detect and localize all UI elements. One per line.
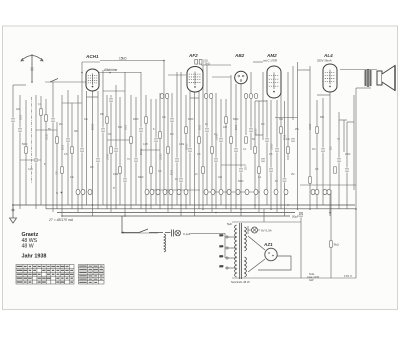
svg-text:15kΩ: 15kΩ — [119, 57, 127, 61]
svg-text:GW: GW — [309, 278, 314, 282]
svg-text:10000: 10000 — [108, 153, 110, 160]
svg-text:50000: 50000 — [93, 123, 95, 130]
svg-text:170 V: 170 V — [344, 274, 352, 278]
svg-text:7,5kΩ: 7,5kΩ — [203, 62, 210, 66]
svg-text:100: 100 — [223, 126, 228, 129]
svg-text:AB2: AB2 — [234, 53, 245, 58]
svg-text:S: S — [56, 191, 58, 195]
svg-text:500: 500 — [320, 116, 325, 119]
svg-text:10000: 10000 — [310, 123, 312, 130]
svg-text:5000: 5000 — [22, 143, 28, 146]
svg-text:5000: 5000 — [233, 118, 239, 121]
svg-text:300: 300 — [74, 130, 79, 133]
svg-text:100: 100 — [16, 108, 21, 111]
svg-text:10000: 10000 — [217, 133, 219, 140]
svg-text:1M: 1M — [312, 148, 315, 151]
svg-text:100k: 100k — [179, 143, 185, 146]
svg-text:1M: 1M — [108, 133, 111, 136]
svg-text:2M: 2M — [291, 173, 294, 176]
svg-text:ACH1: ACH1 — [85, 54, 99, 59]
svg-text:2000: 2000 — [133, 118, 139, 121]
svg-text:100k: 100k — [113, 173, 119, 176]
svg-text:5000: 5000 — [285, 134, 287, 140]
svg-text:48 W: 48 W — [22, 244, 34, 250]
svg-text:3000: 3000 — [126, 124, 128, 130]
svg-text:Jahr 1938: Jahr 1938 — [22, 254, 47, 260]
svg-text:3kΩ: 3kΩ — [334, 243, 340, 247]
svg-text:300: 300 — [279, 118, 284, 121]
svg-text:5000: 5000 — [21, 114, 23, 120]
svg-text:100: 100 — [218, 176, 223, 179]
svg-text:0,25: 0,25 — [143, 143, 148, 146]
svg-text:Netztrafo 48 W: Netztrafo 48 W — [231, 280, 250, 284]
svg-text:50µF: 50µF — [292, 215, 299, 219]
svg-text:5000: 5000 — [172, 169, 174, 175]
svg-text:mit C 170R: mit C 170R — [263, 59, 277, 63]
svg-text:2000: 2000 — [63, 144, 65, 150]
svg-text:0,25: 0,25 — [28, 168, 33, 171]
svg-text:4M: 4M — [90, 166, 93, 169]
svg-text:500: 500 — [118, 126, 123, 129]
svg-text:250V 36mA: 250V 36mA — [317, 59, 332, 63]
svg-text:50000: 50000 — [187, 143, 189, 150]
svg-text:2000: 2000 — [236, 124, 238, 130]
svg-text:AM2: AM2 — [266, 53, 277, 58]
svg-text:5000: 5000 — [238, 180, 244, 183]
svg-text:10000: 10000 — [47, 133, 49, 140]
svg-text:6000: 6000 — [138, 176, 144, 179]
svg-text:2000: 2000 — [345, 153, 351, 156]
svg-text:6000: 6000 — [188, 118, 194, 121]
svg-text:P: P — [113, 186, 115, 190]
svg-text:6000: 6000 — [200, 124, 202, 130]
svg-text:0,1µF: 0,1µF — [183, 232, 191, 236]
svg-text:20000: 20000 — [141, 148, 143, 155]
svg-text:30000: 30000 — [256, 128, 258, 135]
svg-text:6V 0,3A: 6V 0,3A — [261, 229, 272, 233]
svg-text:2M: 2M — [59, 123, 62, 126]
svg-text:27 = 48/170 mA: 27 = 48/170 mA — [48, 218, 74, 222]
svg-text:10000: 10000 — [272, 143, 274, 150]
svg-text:AF2: AF2 — [188, 53, 198, 58]
svg-text:5µF: 5µF — [227, 222, 232, 226]
svg-text:10000: 10000 — [161, 153, 163, 160]
svg-text:4M: 4M — [170, 133, 173, 136]
svg-text:2M: 2M — [261, 123, 264, 126]
svg-text:AL4: AL4 — [323, 53, 333, 58]
svg-text:AZ1: AZ1 — [263, 242, 273, 247]
svg-text:Allströme: Allströme — [104, 68, 118, 72]
